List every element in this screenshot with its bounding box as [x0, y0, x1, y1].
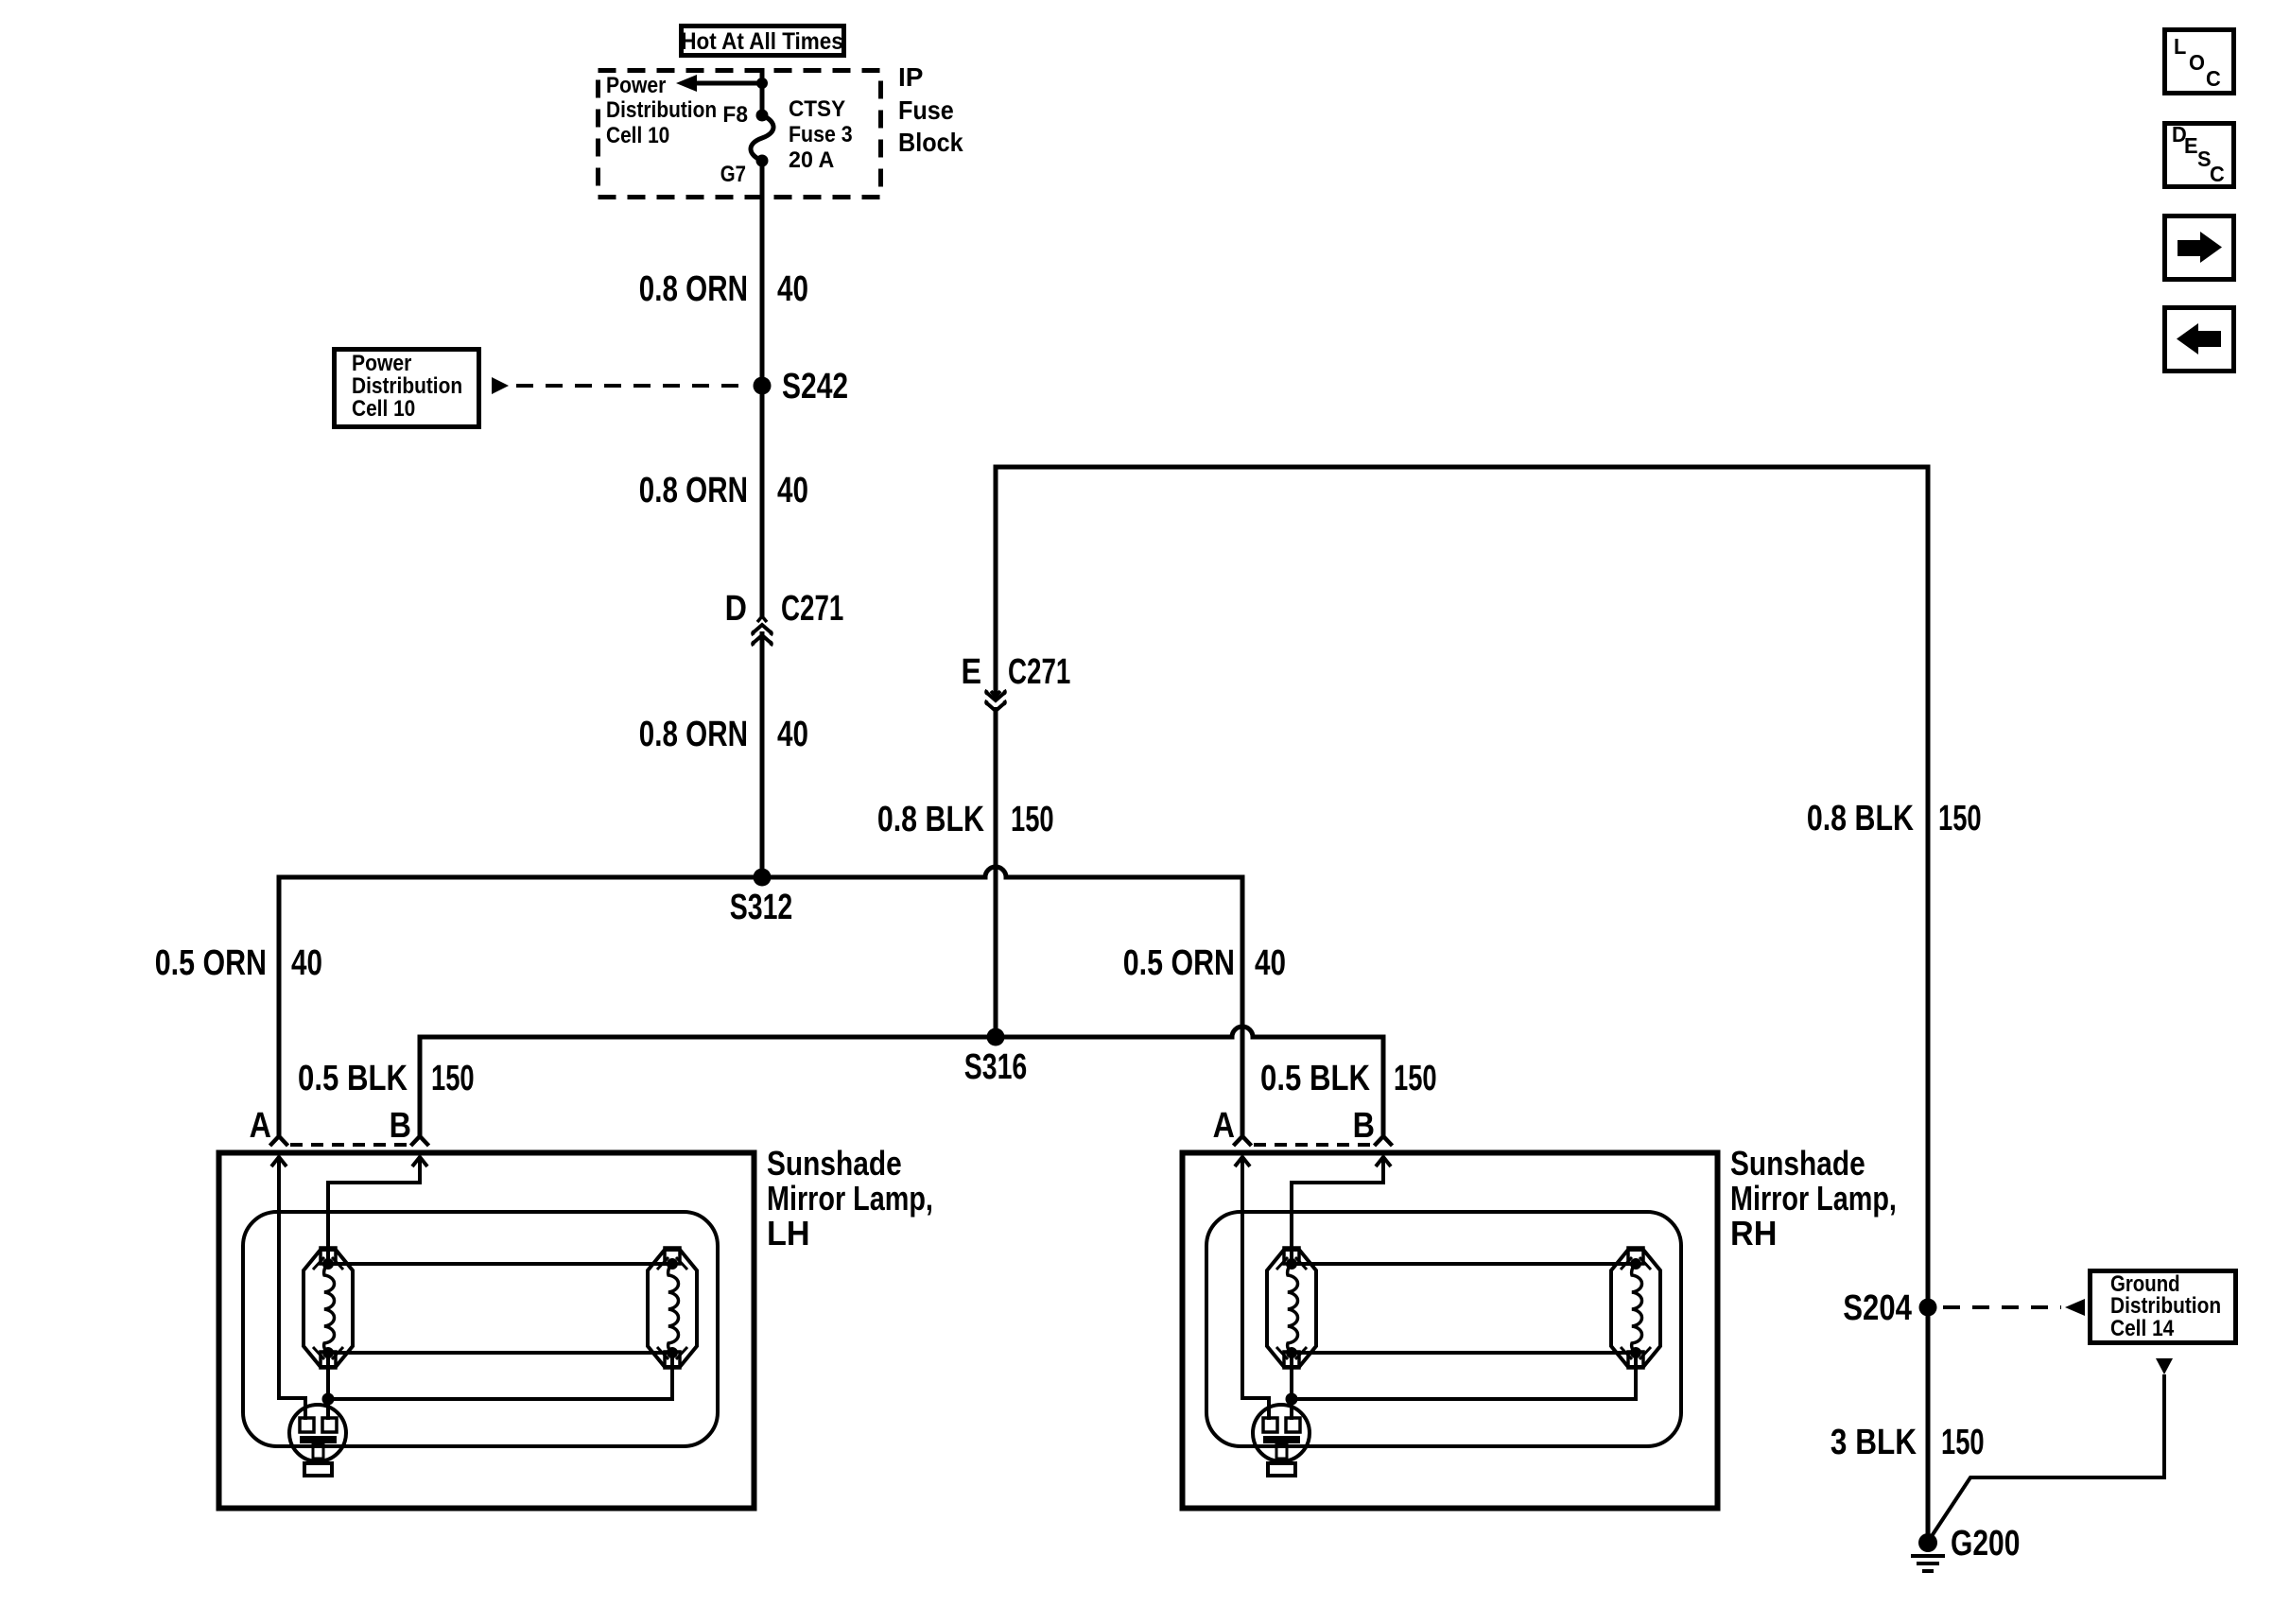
svg-text:Mirror Lamp,: Mirror Lamp, [1730, 1179, 1897, 1218]
lamp LH outer box [219, 1153, 755, 1509]
svg-text:G200: G200 [1951, 1524, 2020, 1564]
bulb socket (RH) [1253, 1405, 1310, 1476]
svg-text:Distribution: Distribution [2110, 1293, 2221, 1319]
wire label 3 BLK 150 [1831, 1422, 1985, 1462]
pin B arrow (RH) [1376, 1157, 1391, 1166]
wire label 0.8 BLK 150 (right branch) [1807, 799, 1982, 838]
dashed connector face line (LH) [290, 1143, 408, 1147]
bulb 1 (RH left) [1267, 1248, 1316, 1368]
wire: B feed jog to left bulb top (RH) [1292, 1157, 1383, 1264]
svg-text:0.5 BLK: 0.5 BLK [1260, 1059, 1370, 1098]
svg-text:0.8 ORN: 0.8 ORN [639, 715, 748, 754]
connector pin A (RH) [1234, 1136, 1252, 1146]
svg-text:IP: IP [898, 62, 923, 92]
svg-text:C: C [2210, 162, 2225, 186]
wire label 0.8 BLK 150 (left, above S312 bus) [877, 800, 1054, 839]
wire: S316 bus with hop over RH A wire, down to lamp B pins [420, 1027, 1383, 1136]
sunshade mirror lamp RH assembly [1183, 1106, 1897, 1509]
wire: bulb top nodes tie (LH) [328, 1262, 672, 1266]
svg-text:A: A [250, 1106, 271, 1146]
svg-text:0.5 BLK: 0.5 BLK [298, 1059, 408, 1098]
junction node (LH socket) [322, 1393, 335, 1406]
svg-text:Sunshade: Sunshade [1730, 1145, 1865, 1183]
connector C271 pin E [961, 652, 1070, 711]
svg-text:Cell 14: Cell 14 [2110, 1316, 2175, 1341]
lamp RH inner rounded body [1206, 1212, 1681, 1446]
svg-text:D: D [725, 589, 747, 629]
splice S316 [964, 1028, 1028, 1088]
svg-text:0.5 ORN: 0.5 ORN [1123, 943, 1235, 983]
wire label 0.8 ORN 40 (below C271 D) [639, 715, 808, 754]
svg-text:150: 150 [1394, 1059, 1437, 1098]
wire: B feed jog to left bulb top (LH) [328, 1157, 420, 1264]
svg-text:40: 40 [777, 471, 808, 510]
bulb socket (LH) [289, 1405, 346, 1476]
fuse CTSY Fuse 3 20 A (F8 to G7) [751, 110, 773, 167]
svg-text:S242: S242 [782, 367, 848, 406]
wire: fuse feed from hot bus into fuse block [760, 68, 765, 115]
svg-text:C: C [2206, 66, 2221, 91]
label box "Hot At All Times" [681, 26, 843, 56]
svg-text:L: L [2174, 34, 2186, 59]
connector pin B (LH) [411, 1136, 429, 1146]
splice S204 [1843, 1288, 1936, 1328]
svg-text:150: 150 [431, 1059, 475, 1098]
svg-text:Fuse: Fuse [898, 95, 954, 126]
wire: right bulb return to socket junction (RH) [1292, 1353, 1636, 1399]
svg-text:3 BLK: 3 BLK [1831, 1422, 1917, 1461]
wire label 0.5 ORN 40 (right) [1123, 943, 1286, 983]
splice S312 [730, 869, 793, 928]
fuse value text CTSY Fuse 3 20 A [789, 95, 853, 173]
wire: A feed to socket left pin (RH) [1242, 1157, 1269, 1420]
svg-text:G7: G7 [720, 161, 746, 186]
svg-text:0.8 ORN: 0.8 ORN [639, 471, 748, 510]
dashed connector face line (RH) [1254, 1143, 1372, 1147]
lamp LH inner rounded body [243, 1212, 718, 1446]
next page arrow box [2165, 216, 2234, 280]
wire: below C271 D down to S312 [760, 631, 765, 877]
sunshade mirror lamp LH assembly [219, 1106, 933, 1509]
svg-text:O: O [2189, 50, 2205, 75]
wire: bulb bottom nodes tie (LH) [328, 1351, 672, 1355]
svg-text:Cell 10: Cell 10 [352, 396, 415, 422]
svg-text:C271: C271 [781, 589, 843, 629]
svg-text:B: B [390, 1106, 411, 1146]
junction node (RH socket) [1286, 1393, 1298, 1406]
svg-text:Fuse 3: Fuse 3 [789, 121, 853, 147]
svg-text:F8: F8 [722, 101, 748, 127]
connector C271 pin D [725, 589, 844, 646]
wire label 0.5 BLK 150 (right) [1260, 1059, 1437, 1098]
svg-text:Distribution: Distribution [606, 97, 717, 123]
svg-text:E: E [2184, 133, 2198, 158]
svg-text:Power: Power [606, 73, 667, 98]
svg-text:40: 40 [291, 943, 322, 983]
pin B arrow (LH) [412, 1157, 427, 1166]
pin A arrow (RH) [1235, 1157, 1250, 1166]
text Power Distribution Cell 10 (inside fuse block) [606, 73, 717, 148]
svg-text:C271: C271 [1008, 652, 1070, 692]
svg-text:B: B [1353, 1106, 1375, 1146]
wire label 0.8 ORN 40 (above S242) [639, 269, 808, 309]
svg-text:0.5 ORN: 0.5 ORN [155, 943, 267, 983]
svg-text:20 A: 20 A [789, 148, 834, 173]
IP fuse block dashed box [599, 71, 881, 198]
ground G200 [1911, 1524, 2020, 1571]
svg-text:40: 40 [1255, 943, 1286, 983]
wire label 0.5 BLK 150 (left) [298, 1059, 475, 1098]
svg-text:Distribution: Distribution [352, 373, 462, 399]
svg-text:150: 150 [1938, 799, 1982, 838]
svg-text:A: A [1213, 1106, 1235, 1146]
bulb 1 (LH left) [304, 1248, 353, 1368]
connector pin B (RH) [1375, 1136, 1393, 1146]
svg-text:40: 40 [777, 269, 808, 309]
svg-text:150: 150 [1011, 800, 1054, 839]
svg-text:E: E [961, 652, 981, 692]
wire: A feed to socket left pin (LH) [279, 1157, 305, 1420]
wire label 0.8 ORN 40 (below S242) [639, 471, 808, 510]
svg-text:0.8 ORN: 0.8 ORN [639, 269, 748, 309]
ground distribution cell 14 reference box [2091, 1270, 2236, 1342]
svg-text:RH: RH [1730, 1215, 1777, 1253]
DESC legend box [2165, 122, 2234, 186]
wire: E branch down to S316 [994, 707, 998, 1037]
svg-text:Hot At All Times: Hot At All Times [681, 28, 843, 55]
wire: top horizontal run from E branch to right ground branch [996, 467, 1928, 1534]
svg-text:Cell 10: Cell 10 [606, 123, 669, 148]
bulb 2 (LH right) [648, 1248, 697, 1368]
splice S242 [754, 367, 849, 406]
svg-text:0.8 BLK: 0.8 BLK [1807, 799, 1914, 838]
wire label 0.5 ORN 40 (left) [155, 943, 322, 983]
svg-text:40: 40 [777, 715, 808, 754]
svg-text:S312: S312 [730, 888, 793, 927]
svg-text:0.8 BLK: 0.8 BLK [877, 800, 984, 839]
wire: left bulb bottom to socket right pin (RH) [1290, 1353, 1293, 1420]
wire: fuse output G7 down toward S312 (upper part, C271 pin D gap) [760, 161, 765, 616]
svg-text:S316: S316 [964, 1047, 1028, 1087]
svg-text:CTSY: CTSY [789, 95, 846, 121]
svg-text:LH: LH [767, 1215, 810, 1253]
svg-text:Block: Block [898, 128, 963, 158]
svg-text:150: 150 [1941, 1423, 1985, 1462]
wire: right bulb return to socket junction (LH) [328, 1353, 672, 1399]
pin A arrow (LH) [271, 1157, 286, 1166]
ground distribution drop arrow [2156, 1358, 2173, 1374]
dashed reference wire to S242 with arrowhead [492, 377, 751, 394]
wire: bulb bottom nodes tie (RH) [1292, 1351, 1636, 1355]
previous page arrow box [2165, 308, 2234, 371]
power distribution cell 10 reference box [335, 350, 479, 427]
svg-text:Mirror Lamp,: Mirror Lamp, [767, 1179, 933, 1218]
svg-text:Power: Power [352, 351, 412, 376]
dashed reference wire to ground distribution with arrowhead [1943, 1299, 2085, 1316]
lamp RH outer box [1183, 1153, 1718, 1509]
svg-text:S204: S204 [1843, 1288, 1912, 1328]
wire: ground distribution return to G200 [1930, 1374, 2164, 1539]
svg-text:Sunshade: Sunshade [767, 1145, 902, 1183]
wire branch arrow to power distribution (inside fuse block) [676, 75, 768, 92]
LOC legend box [2165, 30, 2234, 94]
wire: bulb top nodes tie (RH) [1292, 1262, 1636, 1266]
IP fuse block name [898, 62, 963, 157]
wire: S312 bus with hop over E branch, down to lamp A pins [279, 867, 1242, 1136]
bulb 2 (RH right) [1611, 1248, 1660, 1368]
connector pin A (LH) [270, 1136, 288, 1146]
wire: left bulb bottom to socket right pin (LH) [326, 1353, 330, 1420]
